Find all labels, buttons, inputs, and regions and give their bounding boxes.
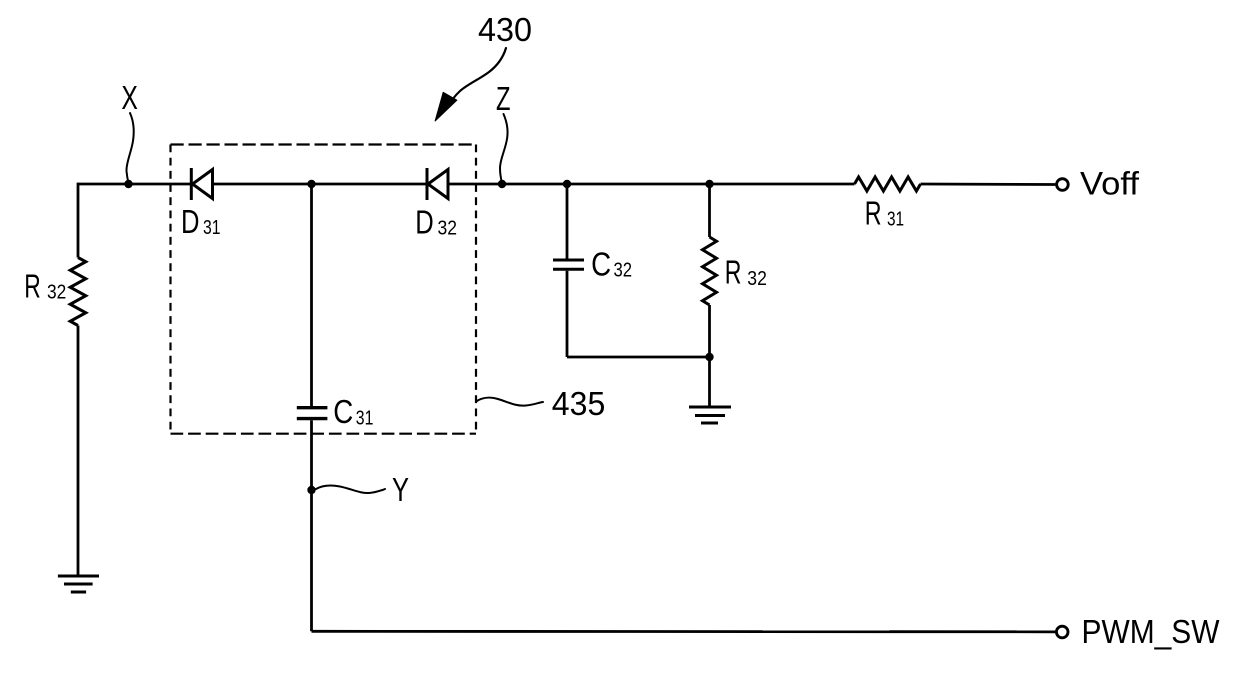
svg-text:32: 32 — [47, 282, 66, 304]
svg-text:D: D — [415, 204, 434, 241]
terminal PWM_SW circle — [1056, 626, 1068, 638]
svg-text:D: D — [181, 203, 200, 240]
svg-text:Y: Y — [392, 471, 409, 508]
node R32 top dot — [705, 180, 713, 188]
ground left — [58, 576, 99, 592]
resistor R32 left zigzag — [70, 258, 86, 326]
capacitor C31 — [297, 408, 328, 419]
ground right — [689, 407, 731, 423]
svg-text:32: 32 — [614, 260, 633, 282]
svg-text:Z: Z — [496, 80, 511, 117]
leader arrow 430 — [454, 48, 506, 98]
svg-text:430: 430 — [478, 11, 532, 48]
svg-text:PWM_SW: PWM_SW — [1082, 613, 1221, 650]
wire C32 branch vertical lower — [566, 271, 569, 357]
svg-text:C: C — [333, 393, 353, 430]
svg-text:Voff: Voff — [1080, 166, 1139, 202]
resistor R31 zigzag — [855, 177, 921, 191]
wire left vertical upper — [77, 183, 80, 258]
wire R32 branch vertical upper — [708, 184, 711, 237]
node X dot — [124, 180, 132, 188]
svg-text:R: R — [865, 195, 882, 232]
diode D32 — [427, 168, 448, 200]
svg-text:R: R — [24, 268, 41, 305]
svg-text:31: 31 — [887, 208, 904, 230]
wire mid vertical (below C31) — [310, 420, 313, 631]
svg-text:C: C — [591, 246, 611, 283]
wire bottom of C32 to R32 junction — [567, 356, 710, 359]
svg-text:32: 32 — [438, 218, 458, 240]
capacitor C32 — [553, 260, 584, 269]
wire R32 branch vertical lower — [708, 305, 711, 407]
node junction dot (C32/R32 bottom) — [705, 353, 713, 361]
resistor R32 right zigzag — [703, 237, 717, 305]
node Y dot — [307, 486, 315, 494]
svg-text:435: 435 — [552, 385, 606, 422]
node Z dot — [498, 180, 506, 188]
leader squiggle X — [126, 113, 133, 183]
leader squiggle Z — [500, 114, 508, 183]
leader squiggle 435 — [476, 398, 543, 406]
node C32 top dot — [563, 180, 571, 188]
svg-text:31: 31 — [356, 407, 374, 429]
leader squiggle Y — [316, 485, 385, 493]
wire main horizontal left segment — [78, 183, 191, 186]
arrowhead 430 — [435, 92, 457, 121]
wire mid vertical (C31 branch upper) — [310, 184, 313, 406]
wire bottom horizontal to PWM_SW — [312, 630, 1056, 633]
wire C32 branch vertical upper — [566, 184, 569, 259]
svg-text:R: R — [725, 254, 742, 291]
terminal Voff circle — [1057, 179, 1069, 191]
svg-text:X: X — [121, 79, 137, 116]
dashed box 430 — [171, 145, 477, 434]
wire between D31 and D32 — [213, 183, 428, 186]
wire from R31 to Voff terminal — [921, 183, 1056, 186]
diode D31 — [191, 168, 212, 200]
node mid (top of C31 branch) dot — [307, 180, 315, 188]
svg-text:32: 32 — [747, 268, 767, 290]
wire left vertical lower — [77, 326, 80, 577]
svg-text:31: 31 — [203, 217, 221, 239]
wire from D32 to R31 — [448, 183, 855, 186]
